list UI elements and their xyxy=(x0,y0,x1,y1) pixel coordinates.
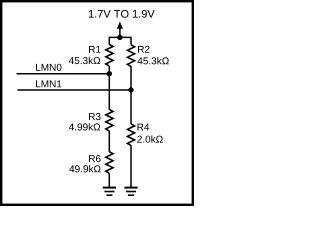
value 4.99k ohm (R3) xyxy=(69,123,100,130)
wire: left rail top stub xyxy=(108,37,110,45)
label R4 xyxy=(138,124,150,131)
resistor R3 xyxy=(106,109,113,131)
wire: right rail to ground xyxy=(130,145,132,187)
wire: left rail to ground xyxy=(108,173,110,187)
ground (left) xyxy=(103,188,116,196)
resistor R2 xyxy=(127,45,134,67)
value 45.3k ohm (R1) xyxy=(69,57,100,64)
node: supply junction dot xyxy=(117,35,122,40)
wire: right rail between R2 and R4 xyxy=(130,66,132,124)
net label LMN1 xyxy=(36,80,61,87)
wire: left rail between R3 and R6 xyxy=(108,131,110,152)
resistor R4 xyxy=(127,124,134,146)
value 2.0k ohm (R4) xyxy=(137,135,162,142)
ground (right) xyxy=(124,188,137,196)
value 49.9k ohm (R6) xyxy=(69,165,100,172)
label R3 xyxy=(89,113,101,120)
resistor R1 xyxy=(106,44,113,66)
wire LMN1 xyxy=(18,89,132,91)
label R1 xyxy=(89,46,101,53)
wire: right rail top stub xyxy=(130,37,132,45)
supply label 1.7V TO 1.9V xyxy=(89,10,155,18)
wire LMN0 xyxy=(17,73,110,75)
wire: top branch horizontal xyxy=(109,36,131,38)
power supply arrow xyxy=(117,22,123,38)
node: LMN0 junction dot xyxy=(107,71,112,76)
wire: left rail between R1 and R3 xyxy=(108,66,110,110)
label R2 xyxy=(138,46,150,53)
label R6 xyxy=(89,155,101,162)
value 45.3k ohm (R2) xyxy=(138,57,169,64)
border frame xyxy=(1,1,193,205)
resistor R6 xyxy=(106,152,113,174)
net label LMN0 xyxy=(36,64,62,71)
node: LMN1 junction dot xyxy=(128,87,133,92)
